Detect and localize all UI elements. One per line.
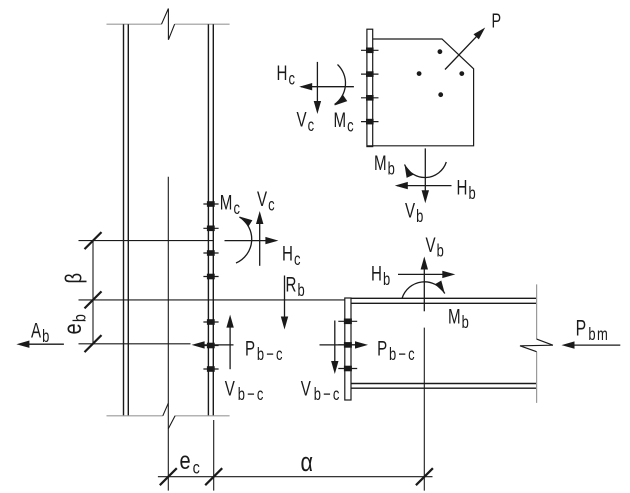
svg-text:Hb: Hb: [457, 175, 478, 204]
arrow P (brace force): [445, 30, 483, 69]
arrow P_bm: [565, 344, 620, 346]
svg-text:Vb: Vb: [426, 232, 446, 261]
dimension tick 1: [85, 232, 102, 249]
beam top flange: [351, 298, 537, 303]
beam bottom flange: [351, 384, 537, 389]
gusset bar bolt tick lines: [361, 50, 379, 121]
column top break symbol: [162, 9, 175, 40]
gusset bolt hole dots: [417, 49, 464, 97]
gusset plate detail: end plate bar: [367, 29, 373, 146]
beam end plate: [345, 298, 351, 400]
svg-text:Vb−c: Vb−c: [225, 376, 266, 405]
arrow V_c at column: [259, 215, 261, 266]
arrow H_b at beam: [398, 273, 451, 275]
dimension tick 3: [85, 335, 102, 352]
arrow V_b-c at column: [229, 319, 231, 370]
left dimension line: [92, 241, 94, 344]
gusset plate bar bolts: [366, 48, 374, 125]
arrow V_b at beam: [423, 259, 425, 312]
moment arc M_c on gusset: [335, 65, 346, 105]
arrow H_c at column: [225, 240, 275, 242]
svg-text:Vc: Vc: [257, 186, 276, 215]
beam break symbol: [520, 339, 553, 352]
svg-text:β: β: [62, 273, 87, 284]
column right flange: [208, 24, 213, 416]
arrow V_b-c at beam: [334, 321, 336, 371]
column top cut line: [107, 23, 230, 25]
column bolt tick lines: [203, 204, 218, 369]
svg-text:Vb: Vb: [405, 198, 425, 227]
svg-text:Vb−c: Vb−c: [301, 376, 342, 405]
beam end plate bolt tick lines: [338, 321, 357, 368]
moment arc M_c at column: [236, 217, 252, 263]
arrow H_c on gusset: [301, 86, 354, 88]
svg-text:Mc: Mc: [334, 107, 356, 136]
beam right cut line: [536, 284, 538, 403]
beam end plate bolts: [344, 319, 352, 372]
arrow H_b on gusset: [397, 185, 452, 187]
svg-text:Ab: Ab: [31, 318, 51, 347]
arrow P_b-c at beam: [320, 344, 365, 346]
column centerline: [167, 177, 169, 491]
svg-text:Hc: Hc: [277, 60, 297, 89]
beam centerline lower: [423, 328, 425, 491]
svg-text:Hc: Hc: [282, 241, 302, 270]
svg-text:Rb: Rb: [286, 272, 307, 301]
gusset plate outline: [367, 39, 474, 146]
dimension tick 2: [85, 291, 102, 308]
moment arc M_b on gusset: [405, 162, 447, 178]
svg-text:Hb: Hb: [371, 261, 392, 290]
bottom dimension line: [158, 476, 433, 478]
svg-text:eb: eb: [59, 313, 90, 335]
svg-text:Vc: Vc: [297, 107, 316, 136]
arrow P_b-c at column: [196, 344, 234, 346]
column flange bolts: [207, 201, 215, 372]
bottom tick 3: [416, 468, 433, 485]
arrow V_c on gusset: [316, 62, 318, 110]
svg-text:Pb−c: Pb−c: [245, 336, 285, 365]
column bottom break symbol: [163, 403, 175, 429]
arrow A_b: [20, 343, 64, 345]
moment arc M_b at beam: [402, 282, 445, 299]
extension line right flange: [213, 420, 215, 491]
svg-text:α: α: [301, 448, 313, 478]
svg-text:Pb−c: Pb−c: [377, 336, 417, 365]
svg-text:ec: ec: [180, 447, 202, 478]
bottom tick 2: [205, 468, 222, 485]
svg-text:P: P: [492, 9, 502, 32]
arrow R_b: [284, 276, 286, 326]
arrow V_b on gusset: [424, 148, 426, 199]
svg-text:Mb: Mb: [374, 150, 396, 179]
column left flange: [124, 24, 129, 416]
column bottom cut line: [107, 415, 230, 417]
svg-text:Mc: Mc: [220, 190, 242, 219]
extension line at beam axis level: [79, 343, 191, 345]
bottom tick 1: [160, 468, 177, 485]
extension line at beam top flange level: [79, 299, 345, 301]
svg-text:Mb: Mb: [448, 304, 470, 333]
svg-text:Pbm: Pbm: [576, 317, 610, 344]
extension line at H_c level: [79, 240, 214, 242]
